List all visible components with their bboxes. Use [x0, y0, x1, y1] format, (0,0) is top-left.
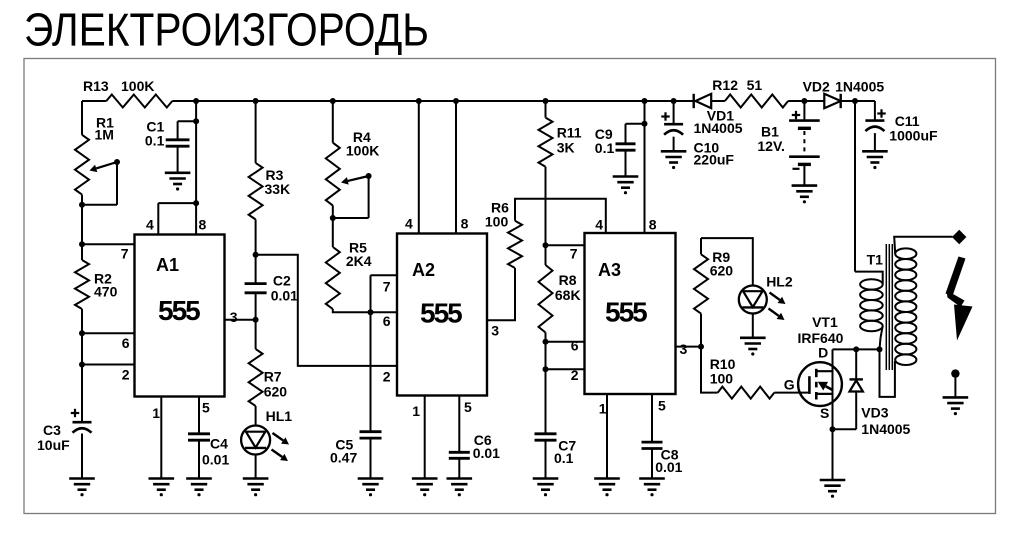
svg-text:5: 5	[658, 398, 666, 414]
svg-text:8: 8	[461, 216, 469, 232]
svg-text:220uF: 220uF	[694, 152, 735, 168]
svg-text:51: 51	[747, 77, 763, 93]
svg-text:10uF: 10uF	[37, 437, 70, 453]
svg-text:33K: 33K	[265, 181, 291, 197]
svg-text:68K: 68K	[555, 287, 581, 303]
svg-text:2: 2	[122, 367, 130, 383]
svg-text:C4: C4	[210, 436, 228, 452]
svg-text:0.01: 0.01	[473, 445, 500, 461]
svg-text:D: D	[818, 345, 828, 361]
svg-text:HL1: HL1	[266, 408, 293, 424]
svg-text:12V.: 12V.	[757, 138, 785, 154]
svg-text:6: 6	[571, 338, 579, 354]
svg-text:5: 5	[464, 399, 472, 415]
svg-text:0.1: 0.1	[595, 140, 615, 156]
svg-text:3: 3	[491, 323, 499, 339]
svg-text:555: 555	[605, 297, 647, 328]
svg-text:VD2: VD2	[803, 79, 830, 95]
svg-text:100K: 100K	[121, 78, 154, 94]
svg-text:3K: 3K	[557, 140, 575, 156]
svg-text:1M: 1M	[95, 127, 114, 143]
svg-text:470: 470	[94, 284, 118, 300]
svg-text:0.01: 0.01	[655, 459, 682, 475]
svg-text:3: 3	[230, 309, 238, 325]
svg-text:2K4: 2K4	[346, 253, 372, 269]
svg-text:1: 1	[599, 401, 607, 417]
svg-text:100K: 100K	[346, 143, 379, 159]
svg-text:S: S	[820, 405, 829, 421]
svg-text:1N4005: 1N4005	[835, 79, 884, 95]
svg-text:R8: R8	[559, 272, 577, 288]
svg-text:8: 8	[199, 217, 207, 233]
svg-text:6: 6	[122, 335, 130, 351]
svg-text:IRF640: IRF640	[798, 330, 844, 346]
svg-text:100: 100	[485, 214, 509, 230]
svg-text:0.47: 0.47	[330, 450, 357, 466]
svg-text:2: 2	[383, 369, 391, 385]
svg-text:555: 555	[158, 295, 200, 326]
svg-text:R11: R11	[557, 125, 582, 141]
svg-text:2: 2	[571, 367, 579, 383]
svg-text:A1: A1	[156, 255, 179, 275]
svg-text:620: 620	[264, 384, 288, 400]
svg-text:0.1: 0.1	[554, 450, 574, 466]
svg-text:555: 555	[420, 298, 462, 329]
svg-text:3: 3	[680, 341, 688, 357]
svg-text:1N4005: 1N4005	[694, 120, 743, 136]
svg-text:4: 4	[595, 217, 603, 233]
svg-text:0.01: 0.01	[202, 452, 229, 468]
svg-text:6: 6	[383, 313, 391, 329]
svg-text:T1: T1	[867, 252, 884, 268]
svg-text:7: 7	[383, 279, 391, 295]
svg-text:7: 7	[121, 246, 129, 262]
svg-text:8: 8	[649, 217, 657, 233]
svg-text:VT1: VT1	[812, 314, 838, 330]
svg-text:7: 7	[570, 246, 578, 262]
svg-text:A2: A2	[412, 260, 435, 280]
svg-text:VD3: VD3	[861, 405, 888, 421]
svg-text:R12: R12	[712, 77, 738, 93]
svg-text:1N4005: 1N4005	[861, 421, 910, 437]
svg-text:1: 1	[412, 403, 420, 419]
svg-text:R13: R13	[83, 78, 109, 94]
svg-text:C3: C3	[43, 422, 61, 438]
svg-text:4: 4	[405, 216, 413, 232]
svg-text:1000uF: 1000uF	[889, 128, 938, 144]
svg-text:100: 100	[710, 371, 734, 387]
svg-text:ЭЛЕКТРОИЗГОРОДЬ: ЭЛЕКТРОИЗГОРОДЬ	[24, 4, 429, 56]
svg-text:G: G	[784, 377, 795, 393]
svg-text:A3: A3	[598, 260, 621, 280]
svg-text:0.1: 0.1	[145, 133, 165, 149]
svg-text:4: 4	[146, 217, 154, 233]
svg-text:0.01: 0.01	[271, 288, 298, 304]
svg-text:HL2: HL2	[766, 274, 793, 290]
svg-text:620: 620	[710, 263, 734, 279]
svg-text:5: 5	[202, 400, 210, 416]
svg-text:1: 1	[152, 405, 160, 421]
svg-text:R7: R7	[264, 369, 282, 385]
svg-text:C2: C2	[273, 273, 291, 289]
